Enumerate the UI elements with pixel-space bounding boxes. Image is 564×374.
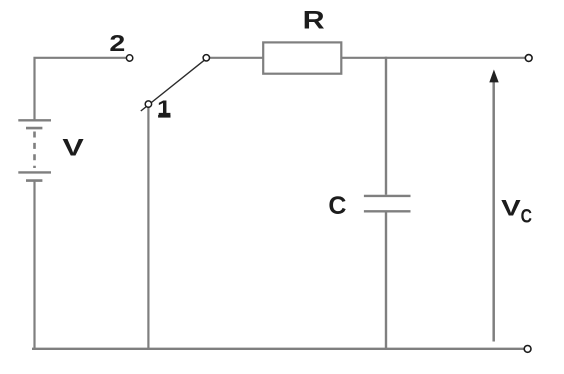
wire from switch contact to resistor xyxy=(210,57,264,59)
Vc arrow shaft xyxy=(492,81,495,342)
wire capacitor branch upper xyxy=(385,57,387,195)
output terminal bottom-right xyxy=(524,346,531,353)
resistor R body xyxy=(263,42,341,73)
wire capacitor branch lower xyxy=(385,212,387,349)
switch arm (pole 1 to common contact) xyxy=(141,59,206,111)
wire switch branch down to bottom rail xyxy=(147,107,149,350)
switch common contact circle xyxy=(203,55,209,61)
wire top-left from battery up and right to contact 2 xyxy=(35,58,127,120)
wire bottom rail xyxy=(32,348,524,350)
switch contact circle 1 xyxy=(145,101,151,107)
Vc arrow head xyxy=(489,70,498,83)
battery V dashed middle (more cells) xyxy=(33,132,36,169)
capacitor C top plate xyxy=(364,195,411,197)
svg-text:R: R xyxy=(303,7,325,35)
svg-text:V: V xyxy=(62,135,83,162)
switch contact circle 2 (terminal) xyxy=(126,55,132,61)
wire resistor to top-right terminal xyxy=(341,57,525,59)
svg-text:2: 2 xyxy=(109,30,125,56)
battery V long plate top xyxy=(18,119,51,121)
label 1 base bar xyxy=(158,115,170,118)
battery V short plate top xyxy=(26,127,42,130)
wire left branch battery to bottom rail xyxy=(33,182,35,350)
svg-text:V: V xyxy=(501,195,521,220)
svg-text:C: C xyxy=(521,207,533,228)
battery V short plate bottom xyxy=(26,179,42,182)
output terminal top-right xyxy=(525,55,532,62)
capacitor C bottom plate xyxy=(364,210,411,212)
svg-text:C: C xyxy=(328,192,346,220)
battery V long plate bottom xyxy=(18,171,51,173)
